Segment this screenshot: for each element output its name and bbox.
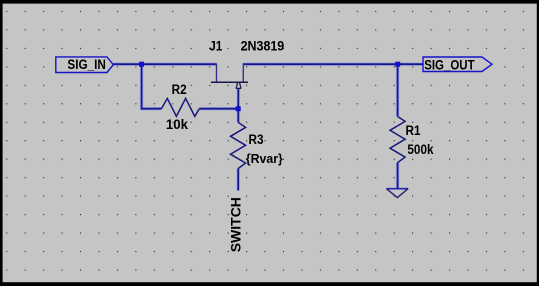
svg-text:R1: R1 [406,122,421,138]
svg-text:500k: 500k [407,141,434,157]
resistor R1 [390,117,405,163]
gate arrow [236,83,242,88]
source leg [216,63,218,82]
svg-text:2N3819: 2N3819 [241,38,285,54]
channel bar [211,81,248,83]
junction node at SIG_IN branch [139,62,144,67]
drain leg [242,63,244,82]
junction node at gate/R2/R3 [236,106,241,111]
wire: left junction down then right to R2 [142,64,162,109]
ground [386,188,408,190]
svg-text:R2: R2 [172,81,187,97]
svg-text:SIG_OUT: SIG_OUT [424,56,475,72]
svg-text:SIG_IN: SIG_IN [67,56,106,72]
transistor J1 (JFET 2N3819) [211,63,248,88]
wire: gate arrow to gate junction to R3 top [237,89,241,123]
wire: R2 right lead to gate junction [199,107,238,111]
port flag SIG_OUT [423,57,492,72]
wire: SIG_IN tip to JFET source corner [113,62,216,66]
resistor R2 [161,98,199,116]
wire: R3 bottom to SWITCH label stub [236,169,240,191]
wire: R1 bottom down to ground [396,163,400,189]
svg-text:SWITCH: SWITCH [227,197,243,252]
svg-text:J1: J1 [209,37,222,53]
resistor R3 [231,122,246,168]
port flag SIG_IN [56,57,114,73]
wire: JFET drain corner to SIG_OUT flag [243,62,423,66]
junction node at SIG_OUT/R1 [395,62,400,67]
wire: right junction down to R1 top [396,64,400,116]
border frame [0,0,539,4]
svg-text:R3: R3 [249,131,264,147]
svg-text:10k: 10k [166,116,189,131]
svg-text:{Rvar}: {Rvar} [246,152,283,166]
